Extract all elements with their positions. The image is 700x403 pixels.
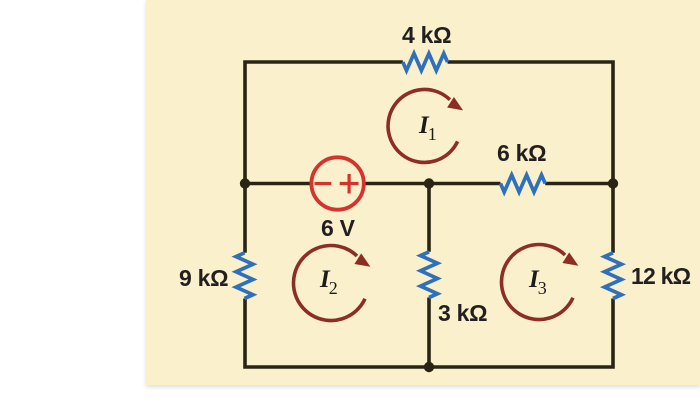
resistor 3 kOhm (center) (421, 252, 438, 298)
voltage source V1 circle (311, 157, 363, 209)
wire: left side down to 9k (243, 184, 247, 253)
wire: center node down to 3k (427, 184, 431, 252)
mesh label I2 (320, 266, 339, 294)
wire: 9k to bottom left corner and bottom side to center bottom node (245, 299, 429, 368)
label 3 kOhm (438, 300, 487, 327)
label 9 kOhm (179, 265, 228, 292)
wire: top right from 4k to right side down to middle node (448, 62, 614, 184)
wire: right middle node down to 12k (611, 184, 615, 253)
node: center middle (424, 178, 434, 188)
label 4 kOhm (402, 22, 451, 49)
node: left middle (240, 178, 250, 188)
mesh current arrow I3 (501, 245, 573, 320)
label 6 kOhm (497, 140, 546, 167)
label 6 V (321, 215, 355, 242)
wire: middle left node to voltage source (245, 182, 310, 186)
mesh current arrow I2 (293, 246, 365, 321)
node: right middle (608, 178, 618, 188)
panel background (146, 0, 700, 385)
resistor 12 kOhm (right) (605, 253, 622, 299)
wire: 6k to right middle node (545, 182, 613, 186)
mesh label I1 (419, 112, 438, 140)
resistor 4 kOhm (top) (403, 54, 448, 71)
mesh current arrow I1 (388, 89, 458, 162)
wire: 3k down to bottom center node (427, 298, 431, 368)
wire: bottom side right half up to 12k (429, 299, 613, 368)
mesh label I3 (529, 266, 548, 294)
node: bottom center (424, 362, 434, 372)
wire: voltage source to center node and on to 6k (366, 182, 501, 186)
voltage source minus sign (315, 182, 332, 185)
voltage source plus sign (340, 182, 359, 185)
label 12 kOhm (631, 263, 690, 290)
resistor 9 kOhm (left) (236, 253, 253, 299)
resistor 6 kOhm (middle) (501, 175, 546, 192)
wire: top side with gap for 4k resistor (245, 62, 403, 184)
